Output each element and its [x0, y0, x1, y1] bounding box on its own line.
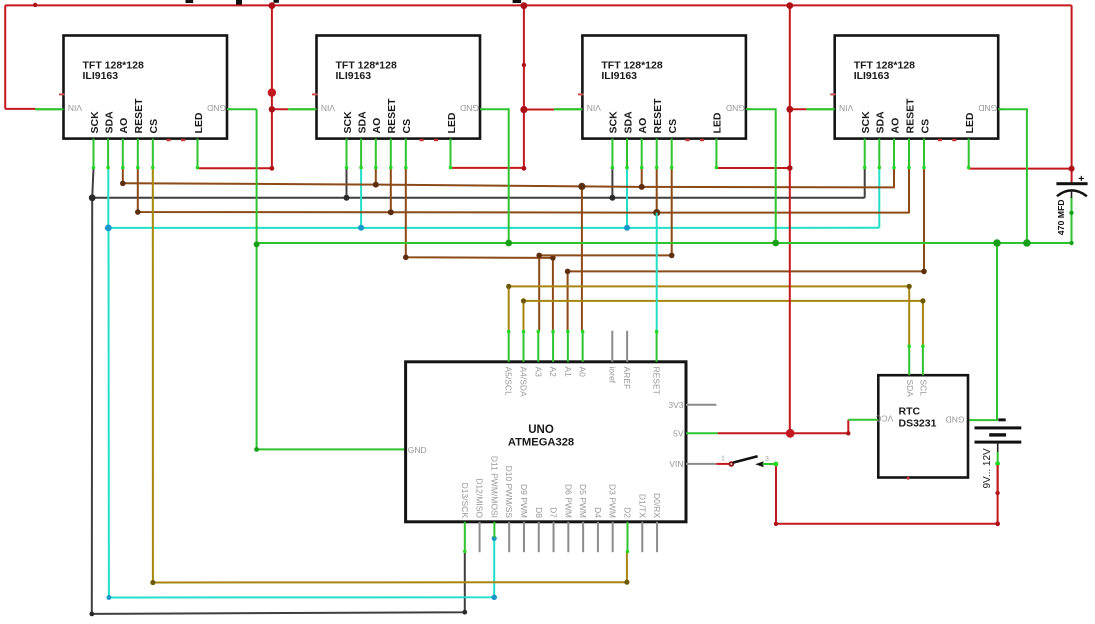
svg-text:A0: A0	[578, 367, 588, 378]
svg-text:ILI9163: ILI9163	[336, 70, 372, 82]
svg-text:LED: LED	[964, 112, 976, 133]
svg-text:D10 PWM/SS: D10 PWM/SS	[504, 466, 514, 519]
svg-text:RESET: RESET	[904, 98, 916, 134]
svg-text:SDA: SDA	[875, 111, 887, 134]
svg-text:GND: GND	[408, 445, 427, 455]
svg-text:VIN: VIN	[68, 103, 82, 113]
svg-text:SDA: SDA	[622, 111, 634, 134]
svg-text:1: 1	[721, 455, 725, 462]
svg-text:A4/SDA: A4/SDA	[518, 367, 528, 398]
svg-text:ATMEGA328: ATMEGA328	[508, 436, 574, 448]
svg-text:D6 PWM: D6 PWM	[563, 484, 573, 518]
svg-text:3: 3	[765, 456, 769, 463]
svg-text:D5 PWM: D5 PWM	[578, 484, 588, 518]
svg-text:ioref: ioref	[607, 367, 617, 384]
svg-text:SCL: SCL	[919, 380, 929, 397]
svg-text:D3 PWM: D3 PWM	[608, 484, 618, 518]
svg-text:D7: D7	[549, 507, 559, 518]
svg-text:5V: 5V	[673, 429, 684, 439]
svg-text:D11 PWM/MOSI: D11 PWM/MOSI	[489, 456, 499, 518]
svg-text:SCK: SCK	[342, 111, 354, 134]
svg-text:D4: D4	[593, 507, 603, 518]
svg-text:D9 PWM: D9 PWM	[519, 484, 529, 518]
svg-text:D2: D2	[622, 507, 632, 518]
svg-text:A5/SCL: A5/SCL	[504, 367, 514, 397]
svg-text:D13/SCK: D13/SCK	[460, 483, 470, 519]
svg-text:GND: GND	[207, 103, 226, 113]
svg-text:AREF: AREF	[622, 367, 632, 390]
svg-text:VIN: VIN	[321, 103, 335, 113]
svg-text:RESET: RESET	[652, 367, 662, 395]
svg-text:A3: A3	[533, 367, 543, 378]
svg-text:D0/RX: D0/RX	[652, 493, 662, 518]
svg-text:ILI9163: ILI9163	[601, 70, 637, 82]
svg-text:LED: LED	[712, 112, 724, 133]
svg-text:DS3231: DS3231	[899, 418, 937, 430]
svg-text:A2: A2	[548, 367, 558, 378]
svg-text:CS: CS	[919, 119, 931, 134]
svg-text:SDA: SDA	[905, 380, 915, 398]
svg-text:VCC: VCC	[875, 414, 893, 424]
svg-text:SCK: SCK	[608, 111, 620, 134]
svg-text:ILI9163: ILI9163	[83, 70, 119, 82]
svg-text:ILI9163: ILI9163	[854, 70, 890, 82]
svg-text:VIN: VIN	[587, 103, 601, 113]
svg-text:LED: LED	[446, 112, 458, 133]
svg-text:+: +	[1078, 173, 1084, 185]
svg-text:RESET: RESET	[133, 98, 145, 134]
svg-text:SCK: SCK	[860, 111, 872, 134]
svg-text:SDA: SDA	[103, 111, 115, 134]
svg-text:CS: CS	[148, 119, 160, 134]
svg-text:470 MFD: 470 MFD	[1056, 199, 1066, 235]
svg-text:AO: AO	[118, 118, 130, 134]
svg-text:3V3: 3V3	[668, 400, 683, 410]
svg-text:SCK: SCK	[89, 111, 101, 134]
svg-text:GND: GND	[946, 415, 965, 425]
svg-text:D12/MISO: D12/MISO	[475, 478, 485, 518]
svg-text:AO: AO	[889, 118, 901, 134]
svg-text:9V... 12V: 9V... 12V	[982, 448, 993, 489]
svg-text:SDA: SDA	[356, 111, 368, 134]
svg-text:GND: GND	[460, 103, 479, 113]
svg-text:GND: GND	[978, 103, 997, 113]
svg-text:RTC: RTC	[899, 406, 921, 418]
svg-text:D8: D8	[534, 507, 544, 518]
svg-text:UNO: UNO	[528, 424, 554, 436]
svg-text:CS: CS	[401, 119, 413, 134]
svg-text:A1: A1	[563, 367, 573, 378]
svg-text:D1/TX: D1/TX	[637, 494, 647, 518]
svg-text:VIN: VIN	[839, 103, 853, 113]
svg-text:AO: AO	[371, 118, 383, 134]
svg-text:GND: GND	[726, 103, 745, 113]
svg-text:RESET: RESET	[652, 98, 664, 134]
svg-text:AO: AO	[637, 118, 649, 134]
svg-text:LED: LED	[193, 112, 205, 133]
svg-text:RESET: RESET	[386, 98, 398, 134]
svg-text:CS: CS	[667, 119, 679, 134]
svg-text:VIN: VIN	[669, 459, 683, 469]
